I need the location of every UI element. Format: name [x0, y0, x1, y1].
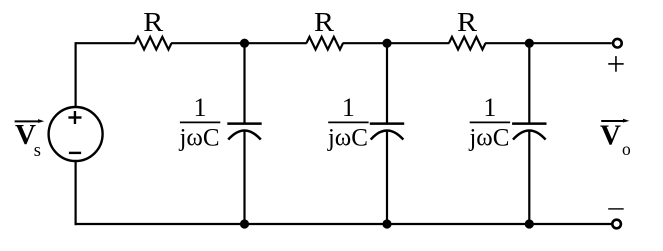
resistor R2 — [306, 37, 343, 50]
resistor R1 — [135, 37, 172, 50]
label Vo — [600, 119, 631, 159]
node dot top 3 — [525, 39, 534, 48]
capacitor C3 curved plate — [513, 131, 546, 140]
wire: bottom rail — [75, 223, 612, 225]
wire: left vertical, top rail to source — [74, 42, 76, 108]
wire: top rail, R2 to R3 — [343, 42, 450, 44]
svg-text:jωC: jωC — [178, 125, 219, 152]
capacitor C2 curved plate — [371, 131, 404, 140]
svg-text:R: R — [457, 7, 477, 37]
output minus sign — [608, 208, 624, 210]
output plus sign — [608, 63, 624, 65]
wire: left vertical, source to bottom rail — [74, 160, 76, 225]
source minus sign — [69, 152, 81, 154]
capacitor C3 branch: wire top rail to plate — [528, 43, 530, 123]
wire: top rail, source to R1 — [76, 42, 136, 44]
capacitor C3 wire to bottom rail — [528, 131, 530, 224]
node dot top 1 — [240, 39, 249, 48]
svg-text:R: R — [314, 7, 334, 37]
wire: top rail, R1 to R2 — [171, 42, 307, 44]
label Vs — [15, 119, 45, 161]
output terminal bottom — [612, 220, 621, 229]
svg-text:1: 1 — [342, 93, 355, 122]
capacitor C1 top plate — [227, 122, 261, 125]
node dot bottom 2 — [382, 219, 391, 228]
label 1/jwC (C2) — [327, 93, 369, 152]
capacitor C3 top plate — [512, 122, 546, 125]
svg-text:R: R — [143, 7, 163, 37]
svg-text:1: 1 — [483, 93, 496, 122]
capacitor C2 wire to bottom rail — [386, 131, 388, 224]
svg-text:jωC: jωC — [468, 125, 509, 152]
output terminal top — [613, 39, 622, 48]
wire: top rail, R3 to output terminal — [485, 42, 612, 44]
svg-text:jωC: jωC — [327, 125, 368, 152]
capacitor C1 branch: wire top rail to plate — [243, 43, 245, 123]
source Vs circle — [49, 107, 103, 161]
capacitor C2 branch: wire top rail to plate — [386, 43, 388, 123]
resistor R3 — [449, 37, 486, 50]
svg-text:o: o — [622, 139, 631, 159]
capacitor C1 curved plate — [228, 131, 261, 140]
node dot bottom 1 — [240, 219, 249, 228]
label 1/jwC (C3) — [468, 93, 510, 152]
capacitor C2 top plate — [370, 122, 404, 125]
svg-text:s: s — [34, 141, 41, 161]
capacitor C1 wire to bottom rail — [243, 131, 245, 224]
label 1/jwC (C1) — [178, 93, 220, 152]
svg-text:1: 1 — [194, 93, 207, 122]
svg-text:V: V — [600, 120, 621, 152]
node dot bottom 3 — [525, 219, 534, 228]
source plus sign — [68, 116, 81, 118]
node dot top 2 — [382, 39, 391, 48]
